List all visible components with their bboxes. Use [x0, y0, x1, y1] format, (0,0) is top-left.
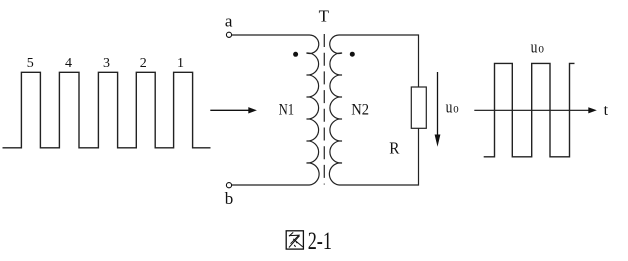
polarity dot N1 [293, 52, 298, 57]
svg-text:u: u [446, 98, 453, 117]
polarity dot N2 [350, 52, 355, 57]
input pulse waveform [3, 72, 211, 148]
resistor R [411, 87, 426, 128]
svg-text:N2: N2 [351, 102, 369, 119]
svg-text:R: R [389, 138, 400, 157]
winding N1 [307, 35, 320, 185]
svg-text:u: u [531, 38, 538, 57]
winding N2 [329, 35, 342, 185]
wire R to N2 bottom [339, 128, 419, 185]
svg-text:T: T [319, 6, 330, 25]
node b [225, 183, 234, 208]
svg-text:t: t [604, 102, 609, 119]
wire a to N1 top [232, 34, 310, 36]
output waveform uo [484, 63, 575, 156]
wire b to N1 bottom [232, 184, 310, 186]
svg-text:o: o [453, 102, 458, 117]
svg-text:o: o [538, 42, 544, 57]
caption hanzi TU (figure) [286, 231, 303, 249]
svg-text:4: 4 [65, 56, 72, 71]
svg-text:a: a [225, 12, 233, 31]
output time axis [474, 107, 597, 113]
svg-text:2-1: 2-1 [308, 228, 332, 255]
wire N2 top to R [339, 35, 419, 87]
svg-text:2: 2 [140, 56, 147, 71]
svg-text:N1: N1 [279, 102, 295, 119]
transformer core (dashed) [323, 34, 325, 185]
arrow uo [435, 72, 441, 147]
svg-text:5: 5 [27, 56, 34, 71]
node a [225, 12, 233, 38]
svg-text:3: 3 [103, 56, 110, 71]
svg-text:1: 1 [177, 56, 184, 71]
svg-text:b: b [225, 189, 234, 208]
input arrow [210, 107, 257, 113]
